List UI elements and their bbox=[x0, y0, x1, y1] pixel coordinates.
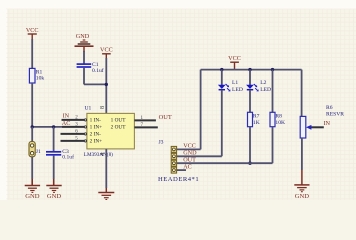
svg-text:GND: GND bbox=[295, 193, 310, 200]
svg-text:1 OUT: 1 OUT bbox=[111, 118, 127, 124]
svg-text:OUT: OUT bbox=[159, 114, 172, 121]
resistor R1 bbox=[29, 68, 35, 83]
wire C1 to VCC column bbox=[84, 83, 106, 85]
power port VCC (right rail) bbox=[228, 55, 241, 70]
svg-text:10k: 10k bbox=[36, 75, 45, 81]
pin 1 stub bbox=[134, 119, 156, 121]
svg-text:4: 4 bbox=[100, 153, 106, 156]
wire R7 to OUT row bbox=[249, 127, 251, 164]
svg-text:1 IN+: 1 IN+ bbox=[90, 125, 103, 131]
pin 7 stub bbox=[134, 126, 157, 128]
LED L2 bbox=[246, 84, 259, 91]
wire L1 down to GND row bbox=[221, 90, 223, 157]
power port VCC (left, net VCC) bbox=[26, 27, 39, 40]
wire L2 to R7 bbox=[249, 90, 251, 113]
pin 4 wire to GND bbox=[105, 149, 107, 188]
svg-text:LM393AN(8): LM393AN(8) bbox=[84, 151, 113, 158]
margins bbox=[0, 0, 356, 9]
wire J3 VCC row bbox=[177, 148, 201, 150]
wire rail right drop to R6 bbox=[301, 70, 303, 117]
svg-text:RESVR: RESVR bbox=[326, 112, 344, 118]
svg-text:R6: R6 bbox=[326, 105, 333, 111]
wire VCC to U1 pin 8 bbox=[105, 58, 107, 113]
wire VCC to R1 bbox=[31, 39, 33, 68]
svg-text:J3: J3 bbox=[159, 139, 164, 145]
wire rail to L1 bbox=[221, 70, 223, 85]
wire C3 to GND bbox=[53, 156, 55, 179]
ground GND (below C3) bbox=[46, 186, 61, 201]
svg-text:8: 8 bbox=[100, 106, 106, 109]
ground GND (inverted, above C1) bbox=[75, 33, 94, 52]
node R8 on rail bbox=[271, 68, 274, 71]
node L2 on rail bbox=[248, 68, 251, 71]
connector J3 HEADER4*1 bbox=[171, 146, 176, 173]
svg-text:U1: U1 bbox=[85, 106, 92, 112]
node R7/OUT row bbox=[248, 162, 251, 165]
svg-text:C1: C1 bbox=[92, 62, 99, 68]
wire rail to L2 bbox=[249, 70, 251, 85]
svg-text:10K: 10K bbox=[275, 120, 285, 126]
svg-text:L1: L1 bbox=[232, 80, 238, 86]
wire AC net horizontal bbox=[32, 126, 62, 128]
wire J3 AC stub bbox=[177, 169, 186, 171]
svg-text:GND: GND bbox=[25, 193, 40, 200]
ground GND (below R6) bbox=[294, 185, 309, 200]
svg-text:AC: AC bbox=[183, 163, 192, 170]
wire C1 down bbox=[83, 68, 85, 85]
svg-text:IN: IN bbox=[324, 120, 331, 127]
wire rail left drop to J3 VCC row bbox=[200, 70, 202, 150]
svg-text:L2: L2 bbox=[260, 80, 266, 86]
LED L1 bbox=[218, 84, 231, 91]
svg-text:2 IN+: 2 IN+ bbox=[90, 139, 103, 145]
svg-text:VCC: VCC bbox=[26, 27, 39, 34]
svg-text:R8: R8 bbox=[275, 114, 282, 120]
svg-text:LED: LED bbox=[260, 87, 271, 93]
node junction R1/J1/AC bbox=[31, 125, 34, 128]
svg-text:GND: GND bbox=[76, 33, 90, 40]
svg-text:HEADER4*1: HEADER4*1 bbox=[158, 176, 199, 183]
svg-text:VCC: VCC bbox=[100, 47, 113, 54]
resistor R7 bbox=[248, 112, 253, 126]
capacitor C1 bbox=[77, 64, 92, 67]
svg-text:J1: J1 bbox=[36, 149, 41, 155]
svg-text:IN: IN bbox=[63, 113, 70, 120]
ground GND (below U1) bbox=[98, 193, 114, 200]
svg-text:0.1uf: 0.1uf bbox=[62, 153, 74, 160]
node L1 on rail bbox=[220, 68, 223, 71]
capacitor C3 bbox=[46, 152, 61, 155]
svg-text:2 IN-: 2 IN- bbox=[90, 132, 102, 138]
wire junction to C3 bbox=[53, 127, 55, 151]
wire J1 to GND bbox=[31, 157, 33, 179]
svg-text:1K: 1K bbox=[253, 120, 260, 126]
svg-text:AC: AC bbox=[62, 120, 71, 127]
connector J1 bbox=[29, 142, 35, 157]
pin 5 stub bbox=[61, 140, 87, 142]
svg-text:VCC: VCC bbox=[228, 55, 241, 62]
wire VCC rail bbox=[201, 69, 302, 71]
svg-text:R7: R7 bbox=[253, 114, 260, 120]
potentiometer R6 bbox=[300, 116, 324, 138]
svg-text:1 IN-: 1 IN- bbox=[90, 118, 102, 124]
wire rail to R8 bbox=[272, 70, 274, 113]
wire R1 to junction bbox=[31, 83, 33, 127]
wire R8 to OUT row corner bbox=[272, 127, 274, 164]
resistor R8 bbox=[270, 112, 275, 126]
wire GND to C1 bbox=[83, 51, 85, 64]
wire J3 GND row bbox=[177, 155, 222, 157]
pin 6 stub bbox=[61, 133, 87, 135]
svg-text:LED: LED bbox=[232, 87, 243, 93]
power port VCC (above U1) bbox=[100, 47, 113, 59]
wire J3 OUT row bbox=[177, 162, 273, 164]
op-amp U1 LM393AN(8) bbox=[87, 113, 134, 148]
node junction C1/VCC/pin8 bbox=[105, 83, 108, 86]
ground GND (below J1) bbox=[25, 186, 40, 201]
wire R6 to GND bbox=[301, 138, 303, 170]
node junction C3/AC bbox=[52, 125, 55, 128]
svg-text:0.1uf: 0.1uf bbox=[92, 67, 104, 74]
wire junction to J1 bbox=[31, 127, 33, 142]
pin 2 stub bbox=[62, 119, 87, 121]
svg-text:GND: GND bbox=[47, 193, 62, 200]
pin 3 stub (AC wire continues) bbox=[62, 126, 87, 128]
svg-text:2 OUT: 2 OUT bbox=[111, 125, 127, 131]
